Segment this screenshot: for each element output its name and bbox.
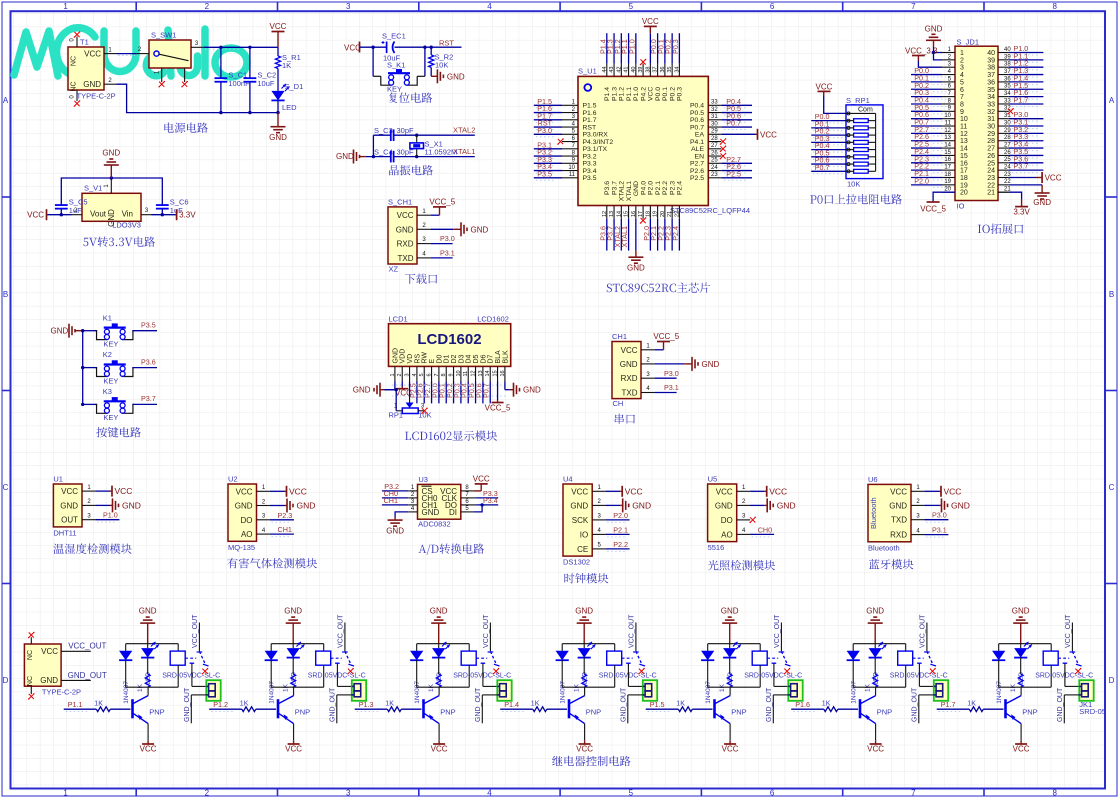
wire/net P2.4 to JD1 pin 15 <box>911 154 942 156</box>
JD1 right pin 27 <box>998 147 1009 149</box>
svg-text:P1.7: P1.7 <box>1014 95 1029 104</box>
svg-text:P3.5: P3.5 <box>141 320 156 329</box>
svg-text:SRD-05VDC-SL-C: SRD-05VDC-SL-C <box>453 673 511 680</box>
RP1 resistor element 5 (net P0.4) <box>811 149 846 151</box>
wire/net P0.5 from U1 pin 32 <box>721 112 752 114</box>
power port VCC_5 from JD1 pin 20 <box>933 192 955 202</box>
svg-text:VCC_5: VCC_5 <box>920 205 946 214</box>
wire/net P1.4 from JD1 pin 36 <box>1009 81 1044 83</box>
RP1 right bus <box>875 113 877 171</box>
svg-text:VCC_OUT: VCC_OUT <box>337 614 344 648</box>
svg-text:P3.4: P3.4 <box>583 168 597 175</box>
U1 top pin 40 P1.0 <box>635 64 637 77</box>
svg-text:RXD: RXD <box>890 531 907 540</box>
svg-text:GND: GND <box>925 25 943 34</box>
svg-text:D: D <box>3 676 9 685</box>
wire/net P0.3 U1 top <box>678 33 680 63</box>
svg-text:1N4007: 1N4007 <box>414 681 421 704</box>
wire/net P0.6 LCD pin 13 <box>482 382 484 404</box>
JD1 right pin 25 <box>998 162 1009 164</box>
relay unit P1.2: transistor PNP <box>277 699 280 718</box>
relay unit P1.3: output terminal (green connector) <box>497 680 511 701</box>
bottom TYPE-C GND pin wire GND_OUT <box>61 679 91 681</box>
svg-text:VCC: VCC <box>760 130 777 139</box>
U1 top pin 43 P1.3 <box>613 64 615 77</box>
relay unit P1.3: emitter wire to VCC <box>438 724 440 741</box>
bottom TYPE-C VCC pin wire VCC_OUT <box>61 650 91 652</box>
svg-text:VCC: VCC <box>140 745 157 754</box>
svg-text:VCC: VCC <box>642 17 659 26</box>
svg-text:P1.7: P1.7 <box>941 700 956 709</box>
JD1 left pin 18 <box>942 176 955 178</box>
svg-text:GND: GND <box>269 133 287 142</box>
U1 right pin 27 ALE <box>708 148 721 150</box>
button bus wire <box>82 331 84 405</box>
svg-text:VCC_5: VCC_5 <box>429 197 455 206</box>
svg-text:VCC: VCC <box>648 87 655 101</box>
switch S_SW1 <box>149 40 191 68</box>
U1 top pin 34 P0.3 <box>678 64 680 77</box>
svg-text:D3: D3 <box>458 354 465 363</box>
svg-text:P1.1: P1.1 <box>626 87 633 101</box>
U1 left pin 8 P3.2 <box>562 155 578 157</box>
relay unit P1.2: resistor 1K (LED series) <box>292 658 294 674</box>
relay unit P1.4: bottom rail <box>562 686 615 688</box>
JD1 right pin 22 <box>998 184 1009 186</box>
CH pin 1 VCC to VCC_5 <box>641 349 655 351</box>
ground GND above LDO <box>110 165 112 178</box>
wire/net P0.2 LCD pin 9 <box>453 382 455 404</box>
svg-text:B: B <box>3 290 8 299</box>
svg-text:CH0: CH0 <box>758 525 772 534</box>
wire/net P3.1 to U1 pin 7 <box>534 148 562 150</box>
wire/net P1.4 U1 top <box>606 33 608 63</box>
title IO拓展口 <box>978 224 1023 234</box>
relay unit P1.6: transistor PNP <box>859 699 862 718</box>
svg-text:IO: IO <box>957 202 965 211</box>
CH1 pin 1 VCC to VCC_5 <box>417 214 431 216</box>
wire/net P0.7 LCD pin 14 <box>489 382 491 404</box>
svg-text:P3.1: P3.1 <box>440 249 455 258</box>
svg-text:TXD: TXD <box>891 516 907 525</box>
U1 right pin 30 P0.7 <box>708 126 721 128</box>
relay unit P1.2: output terminal (green connector) <box>352 680 366 701</box>
svg-text:P3.0: P3.0 <box>932 511 947 520</box>
U1 bottom pin 19 P2.1 <box>657 206 659 219</box>
U1 right pin 29 EA <box>708 133 721 135</box>
relay unit P1.4: collector wire to rail <box>584 687 586 695</box>
svg-text:P3.3: P3.3 <box>583 161 597 168</box>
svg-text:7: 7 <box>960 94 964 101</box>
svg-text:40: 40 <box>987 50 995 57</box>
U3 pin 3 CH1 <box>408 504 417 506</box>
svg-text:VCC: VCC <box>344 44 361 53</box>
CH pin 2 GND <box>641 363 655 365</box>
svg-text:14: 14 <box>616 211 622 217</box>
CH1 pin 4 TXD net P3.1 <box>417 257 431 259</box>
svg-text:TYPE-C-2P: TYPE-C-2P <box>42 688 81 697</box>
RP1 resistor element 8 (net P0.7) <box>811 170 846 172</box>
svg-text:S_D1: S_D1 <box>285 82 304 91</box>
svg-text:VCC: VCC <box>722 745 739 754</box>
ground GND right of LCD (right-pointing) <box>510 389 514 391</box>
svg-text:P0.6: P0.6 <box>690 117 704 124</box>
svg-text:PNP: PNP <box>295 708 310 717</box>
wire/net P0.7 from U1 pin 30 <box>721 126 752 128</box>
wire/net P3.4 from JD1 pin 27 <box>1009 147 1044 149</box>
svg-text:24: 24 <box>711 165 718 171</box>
relay unit P1.2: LED <box>292 644 294 648</box>
relay unit P1.1: ground GND top <box>147 623 149 644</box>
relay unit P1.7: input net P1.7 with 1K base resistor <box>937 708 970 710</box>
connector S_JD1 IO (expansion header) <box>955 46 998 200</box>
relay unit P1.5: switch contact + VCC_OUT <box>767 657 778 659</box>
svg-text:VCC: VCC <box>236 487 253 496</box>
svg-text:15: 15 <box>493 370 499 376</box>
relay unit P1.6: diode 1N4007 <box>852 644 854 651</box>
svg-text:GND_OUT: GND_OUT <box>620 687 627 722</box>
wire top rail of LDO <box>61 178 162 199</box>
wire/net P0.6 from U1 pin 31 <box>721 119 752 121</box>
svg-text:P0.5: P0.5 <box>690 110 704 117</box>
svg-text:GND: GND <box>447 72 465 81</box>
power port VCC left <box>47 214 49 216</box>
svg-text:VCC_OUT: VCC_OUT <box>483 614 490 648</box>
no-connect X on T1 top pin <box>74 31 81 38</box>
relay unit P1.3: LED <box>438 644 440 648</box>
svg-text:16: 16 <box>960 160 968 167</box>
wire Vin to 3.3V port <box>152 214 177 216</box>
svg-text:27: 27 <box>711 143 718 149</box>
svg-text:VCC: VCC <box>41 647 58 656</box>
svg-text:5: 5 <box>629 789 634 798</box>
U1 left pin 2 P1.6 <box>562 112 578 114</box>
svg-text:P1.3: P1.3 <box>359 700 374 709</box>
U1 bottom pin 21 P2.3 <box>671 206 673 219</box>
svg-text:CH1: CH1 <box>612 332 627 341</box>
svg-text:VCC: VCC <box>285 745 302 754</box>
U1 left pin 6 P4.3/INT2 <box>562 141 578 143</box>
relay unit P1.3: NO contact to terminal <box>482 662 484 665</box>
wire/net P3.0 from JD1 pin 31 <box>1009 118 1044 120</box>
svg-text:GND: GND <box>297 501 316 511</box>
svg-text:VCC: VCC <box>867 745 884 754</box>
svg-text:D4: D4 <box>466 354 473 363</box>
RP1 resistor element 1 (net P0.0) <box>811 120 846 122</box>
wire/net P2.7 from U1 pin 25 <box>721 162 752 164</box>
U1 bottom pin 13 P3.7 <box>613 206 615 219</box>
svg-text:A: A <box>3 96 9 105</box>
svg-text:PNP: PNP <box>586 708 601 717</box>
svg-text:11: 11 <box>945 120 952 126</box>
wire crystal top rail XTAL2 <box>373 134 390 136</box>
JD1 left pin 16 <box>942 162 955 164</box>
wire/net P2.7 to JD1 pin 12 <box>911 132 942 134</box>
wire/net P3.4 to U1 pin 10 <box>534 170 562 172</box>
svg-text:GND: GND <box>83 80 101 89</box>
svg-text:RST: RST <box>583 124 597 131</box>
JD1 right pin 37 <box>998 74 1009 76</box>
svg-text:44: 44 <box>602 67 608 73</box>
svg-text:13: 13 <box>944 135 951 141</box>
svg-text:GND_OUT: GND_OUT <box>1057 687 1064 722</box>
svg-text:7: 7 <box>911 2 916 11</box>
power port 3.3V <box>175 214 177 216</box>
svg-text:1K: 1K <box>240 701 249 708</box>
svg-text:15: 15 <box>960 153 968 160</box>
svg-text:P0.4: P0.4 <box>690 103 704 110</box>
relay unit P1.1: bottom rail <box>126 686 179 688</box>
svg-text:GND: GND <box>386 527 404 536</box>
wire/net P0.4 from U1 pin 33 <box>721 104 752 106</box>
JD1 right pin 31 <box>998 118 1009 120</box>
title 按键电路 <box>96 427 141 438</box>
relay unit P1.6: bottom rail <box>853 686 906 688</box>
svg-text:11: 11 <box>960 124 967 131</box>
relay unit P1.3: resistor 1K (LED series) <box>438 658 440 674</box>
svg-text:VCC: VCC <box>625 486 643 496</box>
title A/D转换电路 <box>419 544 485 556</box>
potentiometer RP1 10K (LCD contrast) <box>406 403 414 409</box>
wire LCD GND pin1 to left ground <box>384 382 395 390</box>
svg-text:P0.3: P0.3 <box>677 87 684 101</box>
wire/net P1.5 from JD1 pin 35 <box>1009 88 1044 90</box>
wire VCC to RP1 common pin <box>824 96 846 113</box>
svg-text:SRD-05VDC-SL-C: SRD-05VDC-SL-C <box>890 673 948 680</box>
svg-text:U1: U1 <box>53 475 63 484</box>
svg-text:RS: RS <box>414 353 421 363</box>
capacitor S_C5 1uF <box>60 199 62 205</box>
svg-text:1N4007: 1N4007 <box>851 681 858 704</box>
svg-text:S_U1: S_U1 <box>578 67 597 76</box>
ADC U3 ADC0832 body <box>418 484 461 519</box>
U3 pin 6 DO net P3.4 <box>461 504 476 506</box>
svg-text:B: B <box>1109 290 1114 299</box>
svg-text:VCC: VCC <box>576 745 593 754</box>
svg-text:D2: D2 <box>451 354 458 363</box>
wire/net P1.5 to U1 pin 1 <box>534 104 562 106</box>
relay unit P1.1: input net P1.1 with 1K base resistor <box>64 708 97 710</box>
light sensor U5 5516 <box>708 484 737 542</box>
svg-text:GND: GND <box>866 607 884 616</box>
U1 left pin 9 P3.3 <box>562 162 578 164</box>
svg-text:11: 11 <box>463 371 469 377</box>
pot pin1 to GND rail <box>396 410 402 412</box>
relay unit P1.4: GND_OUT wire <box>628 694 643 696</box>
title 下载口 <box>405 274 437 284</box>
wire/net P2.3 U1 bottom <box>671 219 673 251</box>
wire/net P0.5 LCD pin 12 <box>475 382 477 404</box>
svg-text:36: 36 <box>987 79 995 86</box>
connector S_CH1 XZ (download port) <box>388 207 417 264</box>
svg-text:VCC_OUT: VCC_OUT <box>1065 614 1072 648</box>
CH pin 3 RXD net P3.0 <box>641 377 655 379</box>
svg-text:SRD-05VDC-SL-C: SRD-05VDC-SL-C <box>599 673 657 680</box>
svg-text:GND: GND <box>392 348 399 364</box>
wire/net P2.2 U1 bottom <box>664 219 666 251</box>
svg-text:32: 32 <box>987 109 995 116</box>
bottom TYPE-C top NC pin <box>30 637 32 644</box>
svg-text:S_K1: S_K1 <box>387 61 405 70</box>
svg-text:CH1: CH1 <box>384 496 398 505</box>
wire/net P3.3 to U1 pin 9 <box>534 162 562 164</box>
svg-text:VCC: VCC <box>769 486 787 496</box>
svg-text:OUT: OUT <box>61 516 78 525</box>
JD1 right pin 35 <box>998 88 1009 90</box>
svg-text:XTAL2: XTAL2 <box>619 181 626 201</box>
relay unit P1.4: output terminal (green connector) <box>643 680 657 701</box>
svg-text:8: 8 <box>1052 2 1057 11</box>
svg-text:P3.7: P3.7 <box>611 181 618 195</box>
no-connect X SW1 bottom-left pin <box>158 81 165 88</box>
svg-text:1K: 1K <box>282 61 291 70</box>
relay unit P1.4: ground GND top <box>583 623 585 644</box>
wire/net P3.3 from JD1 pin 28 <box>1009 140 1044 142</box>
svg-text:GND_OUT: GND_OUT <box>68 671 107 680</box>
svg-text:NC: NC <box>27 676 34 686</box>
relay unit P1.1: emitter wire to VCC <box>147 724 149 741</box>
svg-text:U5: U5 <box>708 475 718 484</box>
relay unit P1.5: NO contact to terminal <box>773 662 775 665</box>
svg-text:GND: GND <box>40 676 58 685</box>
bottom TYPE-C bottom NC pin <box>30 686 32 694</box>
JD1 right pin 26 <box>998 154 1009 156</box>
wire LCD pin3 VD to potentiometer wiper <box>409 382 411 398</box>
svg-text:16: 16 <box>944 157 951 163</box>
svg-text:5516: 5516 <box>708 543 725 552</box>
JD1 right pin 32 <box>998 110 1009 112</box>
svg-text:33: 33 <box>711 100 718 106</box>
relay unit P1.2: emitter wire to VCC <box>293 724 295 741</box>
U1 bottom pin 17 P4.0 <box>642 206 644 219</box>
svg-text:17: 17 <box>638 211 644 217</box>
capacitor S_C1 100nF <box>219 46 222 49</box>
svg-text:6: 6 <box>770 2 775 11</box>
LCD display LCD1 LCD1602 body <box>389 324 511 367</box>
LED S_D1 <box>277 69 279 91</box>
wire/net P1.0 from JD1 pin 40 <box>1009 52 1044 54</box>
svg-text:Vin: Vin <box>122 210 133 219</box>
svg-text:34: 34 <box>987 94 995 101</box>
relay unit P1.2: bottom rail <box>271 686 324 688</box>
no-connect X on T1 bottom pin <box>74 100 81 107</box>
svg-text:9: 9 <box>960 109 964 116</box>
no-connect X U1 pin 26 <box>720 153 727 160</box>
U1 top pin 36 P0.1 <box>664 64 666 77</box>
U1 left pin 10 P3.4 <box>562 170 578 172</box>
svg-text:VCC: VCC <box>944 486 962 496</box>
SW1 pin 2 left <box>136 53 149 55</box>
relay unit P1.5: GND_OUT wire <box>773 694 788 696</box>
wire/net P0.7 to JD1 pin 11 <box>911 125 942 127</box>
svg-text:VCC: VCC <box>397 211 414 220</box>
power port VCC from JD1 pin 23 <box>1009 176 1036 178</box>
svg-text:38: 38 <box>645 67 651 73</box>
svg-text:P2.1: P2.1 <box>655 181 662 195</box>
svg-text:3: 3 <box>346 789 351 798</box>
svg-text:VDD: VDD <box>400 349 407 364</box>
JD1 left pin 11 <box>942 125 955 127</box>
svg-text:8: 8 <box>441 373 447 376</box>
svg-text:10K: 10K <box>435 61 448 70</box>
svg-text:GND: GND <box>51 327 69 336</box>
U1 bottom pin 14 XTAL2 <box>620 206 622 219</box>
relay unit P1.2: switch contact + VCC_OUT <box>331 657 342 659</box>
svg-text:1K: 1K <box>94 701 103 708</box>
svg-text:GND: GND <box>1033 198 1051 207</box>
RP1 resistor element 2 (net P0.1) <box>811 127 846 129</box>
wire/net P0.1 U1 top <box>664 33 666 63</box>
svg-text:VCC_OUT: VCC_OUT <box>919 614 926 648</box>
svg-text:1N4007: 1N4007 <box>560 681 567 704</box>
relay unit P1.2: input net P1.2 with 1K base resistor <box>209 708 242 710</box>
wire/net P0.4 LCD pin 11 <box>467 382 469 404</box>
wire K2 to net P3.6 <box>132 367 157 369</box>
JD1 left pin 15 <box>942 154 955 156</box>
wire/net P0.2 U1 top <box>671 33 673 63</box>
svg-text:1: 1 <box>390 373 396 376</box>
relay unit P1.3: relay coil SRD-05VDC-SL-C <box>468 644 470 651</box>
svg-text:1: 1 <box>63 2 68 11</box>
relay unit P1.5: LED <box>729 644 731 648</box>
svg-text:37: 37 <box>987 72 995 79</box>
relay unit P1.6: LED <box>874 644 876 648</box>
svg-text:LED: LED <box>282 103 297 112</box>
wire/net P3.2 to U1 pin 8 <box>534 155 562 157</box>
svg-text:STC89C52RC_LQFP44: STC89C52RC_LQFP44 <box>670 206 750 215</box>
title 串口 <box>615 414 635 424</box>
V1 pin 3 Vin <box>141 214 152 216</box>
svg-text:D0: D0 <box>436 354 443 363</box>
ground GND below U3 <box>394 517 396 520</box>
relay unit P1.1: diode 1N4007 <box>125 644 127 651</box>
svg-text:P1.5: P1.5 <box>650 700 665 709</box>
svg-text:13: 13 <box>609 211 615 217</box>
svg-text:GND: GND <box>1012 607 1030 616</box>
JD1 left pin 13 <box>942 140 955 142</box>
JD1 left pin 2 <box>942 59 955 61</box>
svg-text:P3.1/TX: P3.1/TX <box>583 146 608 153</box>
wire Vout to VCC port <box>47 214 72 216</box>
relay unit P1.2: collector wire to rail <box>293 687 295 695</box>
relay unit P1.2: NO contact to terminal <box>336 662 338 665</box>
svg-text:12: 12 <box>960 131 968 138</box>
wire/net P1.6 from JD1 pin 34 <box>1009 96 1044 98</box>
svg-text:4: 4 <box>487 789 492 798</box>
wire/net P1.2 U1 top <box>620 33 622 63</box>
RP1 resistor element 7 (net P0.6) <box>811 163 846 165</box>
relay unit P1.2: top rail <box>271 643 324 645</box>
wire/net P2.6 LCD pin 5 <box>423 382 425 404</box>
svg-text:14: 14 <box>485 370 491 376</box>
svg-text:NC: NC <box>27 650 34 660</box>
svg-text:GND: GND <box>523 386 541 395</box>
no-connect X U1 pin 6 <box>557 138 564 145</box>
svg-text:6: 6 <box>770 789 775 798</box>
svg-text:P2.5: P2.5 <box>690 175 704 182</box>
svg-text:U3: U3 <box>418 475 428 484</box>
svg-text:1: 1 <box>63 789 68 798</box>
svg-text:RW: RW <box>422 352 429 364</box>
JD1 left pin 7 <box>942 96 955 98</box>
svg-text:VCC_OUT: VCC_OUT <box>192 614 199 648</box>
svg-text:P0.7: P0.7 <box>815 163 830 172</box>
svg-text:P2.4: P2.4 <box>677 181 684 195</box>
wire/net P2.4 U1 bottom <box>678 219 680 251</box>
svg-text:P3.6: P3.6 <box>604 181 611 195</box>
JD1 right pin 30 <box>998 125 1009 127</box>
svg-text:VD: VD <box>407 354 414 364</box>
